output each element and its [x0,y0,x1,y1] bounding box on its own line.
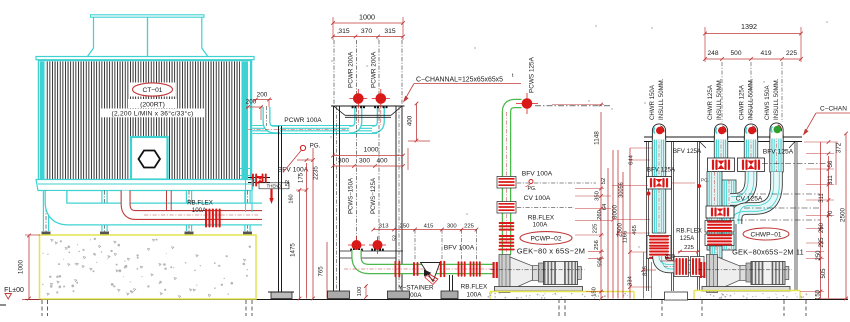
svg-text:419: 419 [760,50,771,57]
svg-text:1392: 1392 [741,22,757,31]
svg-text:248: 248 [707,50,718,57]
svg-text:644: 644 [629,154,635,164]
svg-text:52: 52 [285,180,291,186]
svg-text:CV 125A: CV 125A [736,196,763,203]
svg-text:PCWR 200A: PCWR 200A [348,51,355,88]
svg-text:500: 500 [730,50,741,57]
svg-text:BFV 125A: BFV 125A [647,167,676,174]
svg-text:300: 300 [447,224,458,230]
svg-text:BFV 100A: BFV 100A [444,245,475,252]
svg-text:315: 315 [338,28,350,35]
svg-text:GEK−80x65S−2M 11: GEK−80x65S−2M 11 [732,248,804,257]
svg-text:315: 315 [384,28,396,35]
svg-text:CHWS 150A: CHWS 150A [764,85,771,120]
svg-text:RB.FLEX: RB.FLEX [528,215,555,222]
svg-text:300: 300 [359,158,370,165]
svg-text:52: 52 [393,235,399,241]
svg-text:400: 400 [376,158,387,165]
svg-text:52: 52 [601,178,607,184]
svg-text:2235: 2235 [313,166,320,180]
svg-text:225: 225 [684,245,695,251]
svg-text:465: 465 [632,225,638,235]
svg-text:225: 225 [464,224,475,230]
svg-text:30056: 30056 [619,182,625,198]
svg-text:2500: 2500 [840,207,847,222]
svg-text:BFV 125A: BFV 125A [673,148,702,155]
svg-text:300: 300 [338,158,349,165]
svg-text:PCWS−125A: PCWS−125A [370,177,377,214]
svg-text:64: 64 [602,203,608,210]
svg-text:835: 835 [643,266,649,276]
svg-text:Y−STAINER: Y−STAINER [398,285,434,292]
svg-text:56: 56 [828,160,834,167]
svg-text:372: 372 [836,142,843,153]
svg-text:70: 70 [828,210,834,217]
svg-text:CV 100A: CV 100A [524,195,551,202]
svg-text:225: 225 [786,50,797,57]
svg-text:175: 175 [299,172,305,183]
svg-text:1166: 1166 [623,231,629,243]
svg-text:INSULL 50MM.: INSULL 50MM. [773,78,780,120]
svg-text:3000: 3000 [612,204,619,219]
svg-text:RB.FLEX: RB.FLEX [187,200,213,207]
svg-text:1475: 1475 [290,243,297,257]
svg-text:CHWP−01: CHWP−01 [751,232,782,239]
svg-text:CHWR 125A: CHWR 125A [739,84,746,120]
svg-text:350: 350 [665,254,676,260]
svg-text:100A: 100A [467,292,483,299]
svg-text:C−CHANNAL=125x65x65x5: C−CHANNAL=125x65x65x5 [416,77,503,84]
svg-text:(200RT): (200RT) [140,101,165,108]
svg-text:225: 225 [593,224,599,234]
svg-text:CHWR 125A: CHWR 125A [707,84,714,120]
svg-text:GEK−80 x 65S−2M: GEK−80 x 65S−2M [517,247,585,256]
svg-text:370: 370 [361,28,373,35]
svg-text:(2,200 L/MIN x 36°c/33°c): (2,200 L/MIN x 36°c/33°c) [112,110,194,118]
svg-text:150: 150 [592,287,598,297]
svg-text:415: 415 [424,224,435,230]
svg-text:311: 311 [828,175,834,185]
svg-text:160: 160 [289,194,295,203]
svg-text:200: 200 [257,92,268,99]
svg-text:BFV 100A: BFV 100A [522,171,553,178]
svg-text:BFV 100A: BFV 100A [278,167,309,174]
svg-text:RB.FLEX: RB.FLEX [461,284,488,291]
svg-text:BFV 125A: BFV 125A [763,149,794,156]
svg-text:PG.: PG. [701,178,709,183]
svg-text:225: 225 [819,237,825,248]
svg-text:100: 100 [357,286,363,297]
svg-text:FL±00: FL±00 [4,287,24,294]
svg-text:1000: 1000 [18,259,25,274]
svg-text:150: 150 [816,289,822,300]
svg-text:PCWR 100A: PCWR 100A [284,117,322,124]
svg-text:INSULL 50MM.: INSULL 50MM. [658,78,665,120]
svg-text:250: 250 [400,224,411,230]
svg-text:PG.: PG. [310,143,321,150]
svg-text:100A: 100A [192,207,207,214]
svg-text:CHWR 150A: CHWR 150A [649,84,656,120]
svg-text:PCWR 200A: PCWR 200A [371,51,378,88]
svg-text:C−CHAN: C−CHAN [820,106,847,113]
svg-text:313: 313 [379,224,390,230]
svg-text:THEND: THEND [267,184,282,189]
svg-text:PCWS−150A: PCWS−150A [348,177,355,214]
svg-text:1148: 1148 [594,131,601,145]
svg-text:260: 260 [597,210,603,220]
svg-text:505: 505 [821,268,827,279]
svg-text:100A: 100A [533,222,549,229]
svg-text:1000: 1000 [359,13,375,22]
svg-text:PCWS 125A: PCWS 125A [529,56,536,93]
svg-text:765: 765 [318,266,325,277]
svg-text:311: 311 [819,193,825,203]
svg-text:125A: 125A [680,235,695,242]
svg-text:400: 400 [407,115,414,126]
svg-text:334: 334 [628,275,634,285]
svg-text:1000: 1000 [363,147,378,154]
svg-text:CT−01: CT−01 [143,87,163,94]
svg-text:250: 250 [816,250,822,261]
svg-text:PCWP−02: PCWP−02 [531,236,562,243]
svg-text:256: 256 [594,240,600,250]
svg-text:260: 260 [819,222,825,233]
svg-text:PG.: PG. [528,186,537,192]
svg-text:RB.FLEX: RB.FLEX [676,228,702,235]
